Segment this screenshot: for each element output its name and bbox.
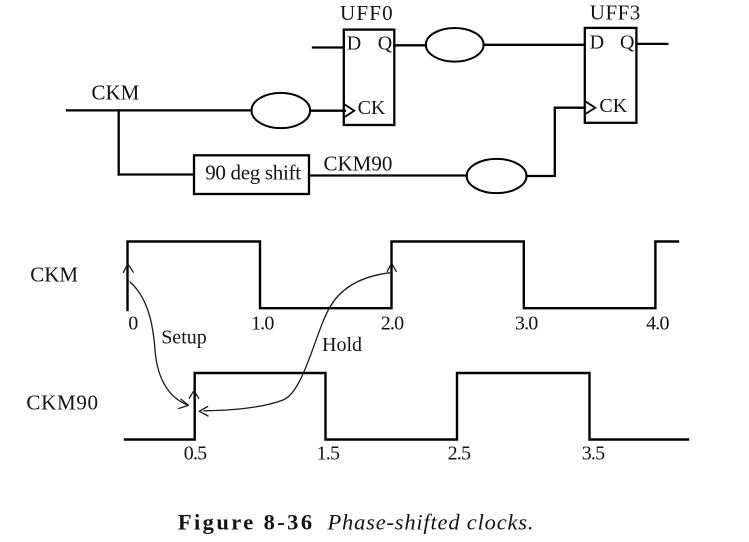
flip-flop UFF0 body <box>344 30 395 125</box>
svg-text:0.5: 0.5 <box>184 443 207 465</box>
delay ellipse on CKM90 clock line <box>467 159 527 193</box>
wire: CKM90 horizontal run <box>309 174 467 176</box>
svg-text:CKM: CKM <box>92 80 140 104</box>
wire: ellipse to UFF3 CK riser <box>527 108 585 176</box>
svg-text:3.0: 3.0 <box>515 312 538 334</box>
wire: UFF0 Q to delay ellipse <box>394 44 426 46</box>
arrowhead of Hold curve (left end, pointing at CKM90 edge) <box>199 407 208 417</box>
block: 90 deg shift <box>194 155 309 194</box>
svg-text:D: D <box>590 31 604 53</box>
svg-text:CKM: CKM <box>30 263 78 287</box>
svg-text:CKM90: CKM90 <box>324 152 393 176</box>
clock-edge triangle UFF0 CK pin <box>345 105 354 117</box>
svg-text:Phase-shifted clocks.: Phase-shifted clocks. <box>327 510 535 535</box>
svg-text:CK: CK <box>599 95 627 117</box>
wire: CKM horizontal run <box>67 109 252 111</box>
svg-text:Q: Q <box>620 31 635 53</box>
svg-text:Setup: Setup <box>161 327 207 349</box>
annotation curve: Setup arrow from CKM edge 0 to CKM90 edge 0.5 <box>130 282 188 405</box>
svg-text:2.0: 2.0 <box>381 312 404 334</box>
svg-text:1.5: 1.5 <box>317 443 340 465</box>
wire: D input stub of UFF0 <box>313 46 344 48</box>
svg-text:CK: CK <box>358 97 386 119</box>
svg-text:1.0: 1.0 <box>251 312 274 334</box>
clock-edge up arrowhead at CKM 2.0 <box>387 263 396 271</box>
svg-text:Q: Q <box>378 33 393 55</box>
svg-text:CKM90: CKM90 <box>26 391 98 415</box>
svg-text:2.5: 2.5 <box>448 443 471 465</box>
svg-text:4.0: 4.0 <box>646 312 669 334</box>
svg-text:Hold: Hold <box>322 334 362 356</box>
svg-text:3.5: 3.5 <box>582 443 605 465</box>
svg-text:Figure 8-36: Figure 8-36 <box>178 510 315 535</box>
delay ellipse on CKM clock line <box>251 93 310 128</box>
annotation curve: Hold arrow from CKM90 edge 0.5 to CKM edge 2.0 <box>204 273 390 411</box>
svg-text:D: D <box>347 33 361 55</box>
wire: ellipse to UFF0 CK <box>310 110 345 112</box>
waveform CKM90 trace <box>125 373 688 440</box>
clock-edge triangle UFF3 CK pin <box>586 102 595 114</box>
svg-text:0: 0 <box>128 312 138 334</box>
arrowhead of Setup curve at CKM90 edge <box>179 399 189 408</box>
svg-text:UFF0: UFF0 <box>340 1 394 25</box>
flip-flop UFF3 body <box>585 28 637 123</box>
wire: branch to 90 deg shift box <box>119 173 194 175</box>
svg-text:UFF3: UFF3 <box>590 1 641 25</box>
wire: CKM branch vertical drop <box>118 110 120 174</box>
waveform CKM trace <box>128 242 679 311</box>
wire: UFF3 Q output stub <box>636 43 667 45</box>
clock-edge up arrowhead at CKM 0 <box>123 264 133 273</box>
svg-text:90 deg shift: 90 deg shift <box>205 161 301 185</box>
wire: delay ellipse to UFF3 D <box>484 44 585 46</box>
delay ellipse between UFF0 Q and UFF3 D <box>426 28 484 62</box>
clock-edge up arrowhead at CKM90 0.5 <box>189 391 199 399</box>
